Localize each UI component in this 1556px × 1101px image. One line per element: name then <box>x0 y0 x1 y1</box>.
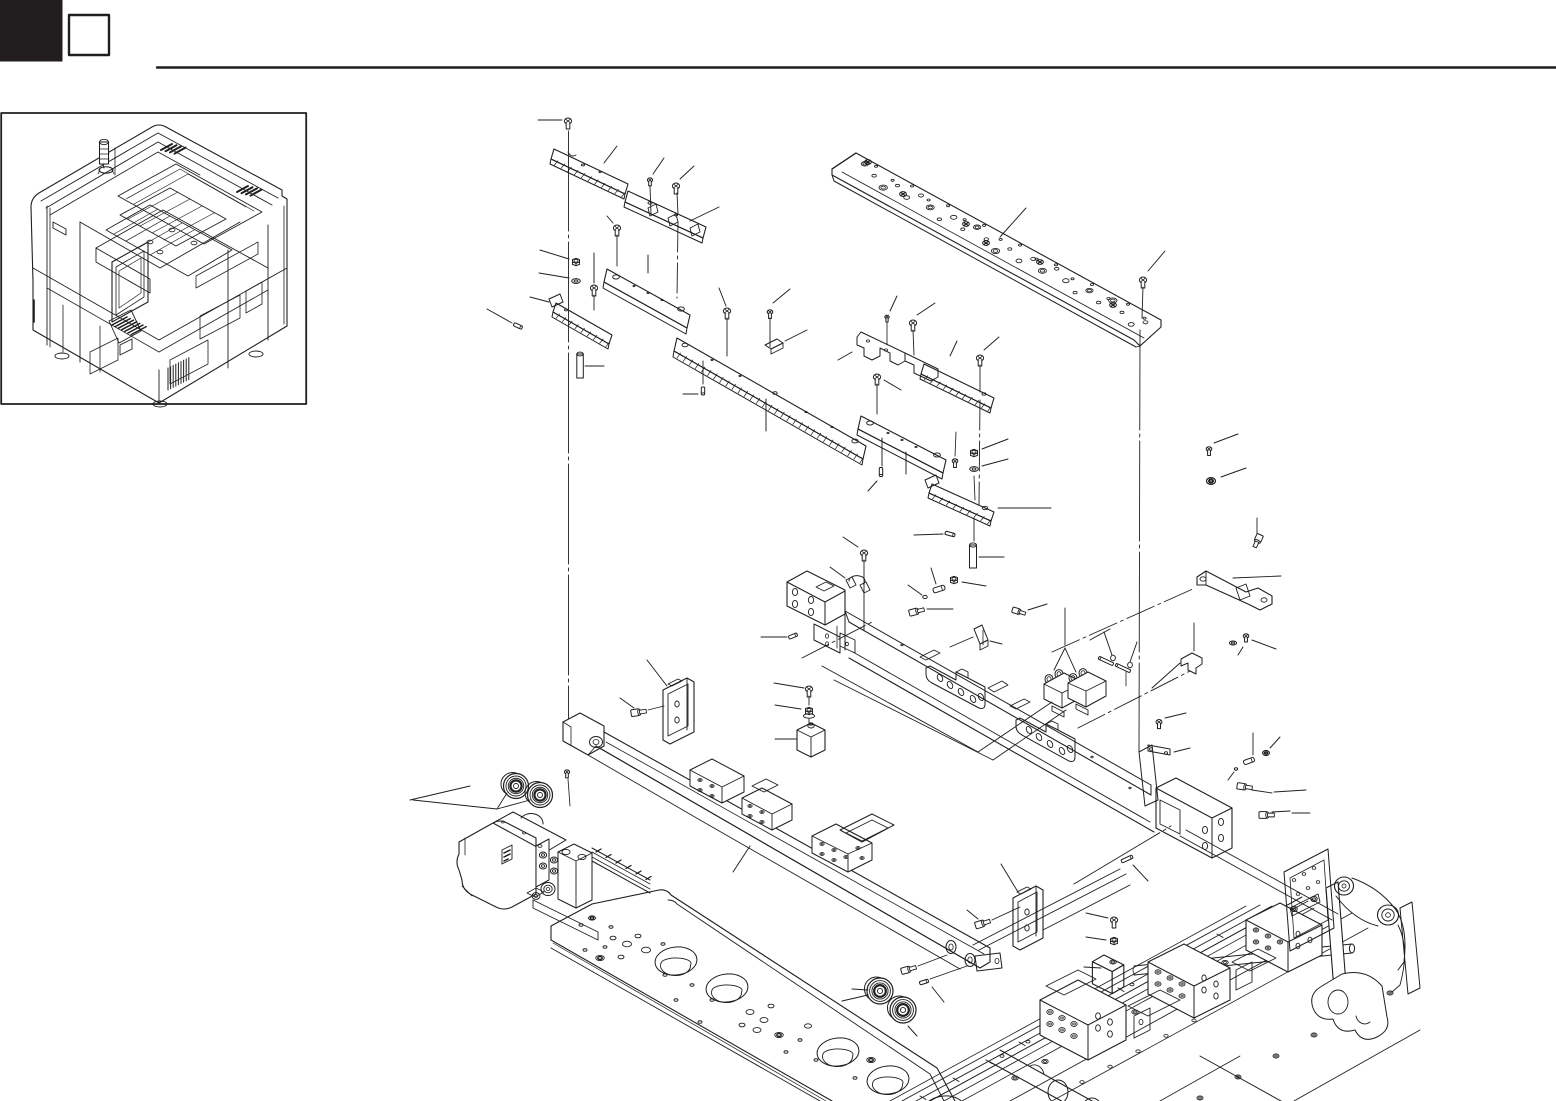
screw S20 <box>1252 518 1264 549</box>
guide line G1 <box>822 666 1052 752</box>
axis line A4 <box>1074 826 1171 884</box>
screw S9 <box>885 296 897 345</box>
leader B1 <box>604 146 617 163</box>
standoff C1 <box>577 352 604 378</box>
washer W2 <box>970 459 1008 500</box>
screw S6 <box>719 288 731 356</box>
bracket B12 <box>1152 623 1202 688</box>
axis line A1 <box>568 131 570 722</box>
machine pictorial <box>31 125 287 407</box>
bolt S23 <box>1259 811 1310 818</box>
screw S3 <box>672 166 694 298</box>
cube C5 <box>775 723 825 757</box>
screw S28 <box>967 907 1020 929</box>
screw S11 <box>976 337 999 505</box>
screw S5 <box>590 253 597 310</box>
pin P10 <box>1121 855 1148 881</box>
plate edge PE1 <box>1160 1030 1420 1101</box>
inset locator box <box>1 113 306 404</box>
screw S16 <box>908 606 953 616</box>
screw S1 <box>538 118 572 129</box>
screw S12 <box>873 374 901 414</box>
standoff C2 <box>970 518 1005 568</box>
leader B4 <box>530 297 549 302</box>
clip K1 <box>765 330 807 354</box>
rail plate B9 <box>857 416 946 479</box>
carriage rail R3 <box>563 713 1002 971</box>
screw S21 <box>1243 634 1276 649</box>
screw S2 <box>647 158 664 214</box>
axis line A7 <box>1078 671 1190 728</box>
pin P9 <box>761 633 798 640</box>
page corner block <box>0 0 62 61</box>
pin P8 <box>919 966 967 1002</box>
screw S8 <box>1139 251 1165 318</box>
hole plate B6 <box>832 153 1161 347</box>
leader B5b <box>765 399 767 431</box>
guide rail B5 <box>673 338 866 465</box>
axis line A3 <box>1052 588 1195 652</box>
guide line G6 <box>1043 885 1130 930</box>
screw S25 <box>564 770 570 806</box>
cyl C3 <box>931 568 945 593</box>
leader B2 <box>690 207 719 221</box>
clamp K2 <box>830 567 870 593</box>
bolt S23a <box>1237 783 1306 793</box>
screw S7 <box>767 289 790 347</box>
leader V1 <box>1054 608 1110 672</box>
spacer plate B2 <box>624 191 706 243</box>
stage block SB3 <box>1246 903 1322 972</box>
screw S14 <box>1098 632 1115 666</box>
leader B11 <box>1233 576 1281 578</box>
screw S32 <box>774 683 813 705</box>
stage block SB1 <box>1040 970 1126 1060</box>
grommet G3 <box>1207 468 1247 484</box>
screw S24 <box>620 698 664 717</box>
washer W3 <box>1229 641 1243 655</box>
motor unit M1 <box>457 812 651 940</box>
leader B3 <box>647 255 649 273</box>
washer W1 <box>539 273 580 283</box>
screw S18 <box>843 537 868 630</box>
pulley unit PU1 <box>1284 849 1420 1039</box>
drive shaft D1 <box>990 1050 1130 1101</box>
pin P1 <box>487 309 523 329</box>
leader B15 <box>1001 864 1018 892</box>
leader R3 <box>410 786 750 872</box>
roller RO3 <box>864 977 893 1004</box>
leader B10 <box>998 507 1051 509</box>
guide line G2 <box>834 680 1066 760</box>
pin P4 <box>914 531 955 537</box>
leader RO34 <box>842 995 917 1036</box>
header rule <box>157 66 1556 68</box>
leader RO <box>413 793 530 809</box>
axis line A6 <box>802 621 874 658</box>
carrier plate CP2 <box>1232 949 1276 990</box>
stage block SB2 <box>1148 944 1230 1018</box>
screw S22 <box>1156 713 1186 729</box>
stage plates P2 <box>890 897 1393 1101</box>
leader B14 <box>647 660 667 686</box>
bracket B15 <box>1013 886 1043 950</box>
roller RO4 <box>887 996 916 1023</box>
screw S17 <box>1012 604 1047 616</box>
guide line G5 <box>973 869 1126 950</box>
pin P2 <box>683 361 705 395</box>
roller RO1 <box>501 773 529 799</box>
nut N4 <box>1086 937 1118 945</box>
clip U1 <box>950 625 1002 650</box>
nut N1 <box>540 250 580 266</box>
screw S15 <box>1115 642 1137 686</box>
beam rail R1 <box>787 571 1154 832</box>
leader B8 <box>950 341 957 356</box>
screw S10 <box>909 303 935 355</box>
pin P7 <box>1228 768 1238 780</box>
screw S27 <box>1086 913 1118 928</box>
angle plate B10 <box>925 475 994 526</box>
valve V1 <box>1044 669 1106 717</box>
screw S29 <box>852 955 947 990</box>
shim plate B1 <box>550 149 628 199</box>
screw S13 <box>952 432 958 467</box>
leader B6 <box>1000 208 1026 237</box>
bracket B14 <box>663 678 694 744</box>
cube C4 <box>1084 955 1124 994</box>
stop plate B4 <box>549 294 612 349</box>
clip G4 <box>1263 737 1280 756</box>
carrier plate CP1 <box>1128 990 1180 1038</box>
shim plate B8 <box>920 364 994 413</box>
end block R2 <box>1139 745 1232 858</box>
cross rod D2 <box>1133 944 1355 975</box>
screw S4 <box>607 216 621 266</box>
pin P6 <box>1243 733 1255 765</box>
pin P3 <box>868 468 883 492</box>
pin P5 <box>908 585 927 599</box>
leader B9 <box>882 438 906 474</box>
rail plate B3 <box>603 269 690 334</box>
base plate P1 <box>551 890 966 1101</box>
link bar B13 <box>1148 745 1190 755</box>
nut N5 <box>775 705 815 726</box>
screw S19 <box>1206 434 1238 455</box>
bracket B11 <box>1197 571 1272 610</box>
roller RO2 <box>525 782 553 808</box>
axis line A2 <box>1139 330 1140 752</box>
spacer plate B7 <box>857 332 938 381</box>
leader B7 <box>838 352 852 360</box>
nut N2 <box>971 439 1009 457</box>
chapter number box <box>69 15 109 55</box>
belt guard lines <box>1180 830 1338 920</box>
nut N3 <box>951 576 987 586</box>
